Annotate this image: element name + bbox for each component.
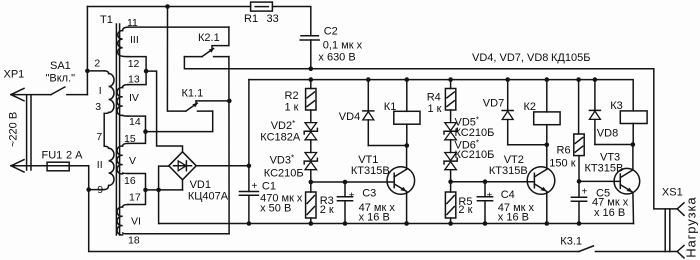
- zener VD5 KS210B: [445, 123, 457, 131]
- svg-text:FU1: FU1: [42, 150, 63, 162]
- svg-text:III: III: [130, 34, 139, 46]
- svg-text:КТ315В: КТ315В: [585, 163, 624, 175]
- wire base 3: [579, 180, 620, 182]
- svg-text:14: 14: [129, 116, 141, 128]
- node VT3 base: [577, 179, 582, 184]
- svg-text:х 630 В: х 630 В: [318, 52, 355, 64]
- svg-text:9: 9: [97, 184, 103, 196]
- svg-text:КС210Б: КС210Б: [455, 149, 495, 161]
- wire VT2 emitter to ground: [546, 192, 548, 224]
- svg-text:XS1: XS1: [662, 187, 683, 199]
- svg-text:К1.1: К1.1: [182, 88, 204, 100]
- capacitor C4 47uF 16V: [483, 179, 488, 184]
- svg-text:7: 7: [96, 131, 102, 143]
- T1 winding IV: [123, 85, 128, 88]
- svg-text:2 А: 2 А: [66, 150, 83, 162]
- svg-text:IV: IV: [129, 92, 139, 104]
- wire bridge bottom AC2: [182, 180, 184, 190]
- resistor R1 33: [251, 2, 273, 11]
- wire mains to K1.1 common: [167, 7, 186, 112]
- T1 core: [115, 24, 117, 235]
- svg-text:XP1: XP1: [4, 69, 25, 81]
- node VT1 collector: [405, 143, 410, 148]
- capacitor C1 470uF 50V: [248, 80, 250, 192]
- transistor VT2 KT315V: [527, 167, 555, 195]
- wire base 2: [451, 181, 535, 183]
- wire top mains rail: [87, 6, 250, 8]
- wire base 1: [311, 181, 394, 183]
- svg-text:К3.1: К3.1: [560, 236, 582, 248]
- svg-text:0,1 мк х: 0,1 мк х: [323, 40, 363, 52]
- bridge rectifier VD1 KTs407A: [169, 152, 196, 180]
- relay K3 coil: [620, 111, 647, 124]
- wire bridge plus to C1/+rail: [196, 165, 249, 167]
- wire 16/17 to bridge minus / ground: [146, 189, 183, 191]
- svg-text:+: +: [252, 181, 258, 192]
- svg-text:+: +: [349, 191, 355, 202]
- diode VD8: [593, 77, 598, 82]
- node top rail / K1.1 branch: [165, 4, 170, 9]
- wire SA1 to T1 pin2 / top rail: [86, 7, 88, 95]
- svg-text:18: 18: [128, 235, 140, 247]
- node C2/rail: [309, 67, 314, 72]
- diode VD7: [505, 77, 510, 82]
- svg-text:х 16 В: х 16 В: [594, 207, 625, 219]
- svg-text:С1: С1: [262, 181, 276, 193]
- svg-text:КС182А: КС182А: [260, 132, 301, 144]
- svg-text:1 к: 1 к: [428, 103, 442, 115]
- transistor VT3 KT315V: [614, 168, 640, 194]
- node 14/15: [143, 129, 148, 134]
- wire fuse to pin9 and bottom rail: [89, 166, 579, 252]
- T1 winding I (primary): [105, 71, 109, 74]
- wire +rail: [249, 80, 633, 111]
- svg-text:R4: R4: [427, 92, 441, 104]
- zener VD2 KS182A: [305, 123, 317, 131]
- resistor R2 1k: [309, 77, 314, 82]
- svg-text:R2: R2: [285, 90, 299, 102]
- transistor VT1 KT315V: [387, 167, 415, 195]
- T1 winding VI: [123, 205, 128, 208]
- node tap 12/13: [144, 69, 149, 74]
- resistor R5 2k: [450, 182, 452, 192]
- node bridge minus: [156, 188, 161, 193]
- svg-text:VD3*: VD3*: [270, 154, 295, 167]
- svg-text:VD7: VD7: [483, 97, 504, 109]
- svg-text:1 к: 1 к: [285, 102, 299, 114]
- wire VT3 emitter to ground rail end: [632, 193, 635, 224]
- wire pin14-pin15: [128, 116, 146, 143]
- svg-text:3: 3: [95, 101, 101, 113]
- T1 winding II: [109, 148, 114, 185]
- capacitor C3 47uF 16V: [343, 180, 348, 185]
- svg-text:VD4, VD7, VD8: VD4, VD7, VD8: [472, 52, 548, 64]
- wire pin16-pin17: [128, 174, 146, 205]
- wire VT1 emitter to ground: [406, 192, 408, 224]
- svg-text:КС210Б: КС210Б: [455, 127, 495, 139]
- svg-text:КД105Б: КД105Б: [551, 52, 590, 64]
- svg-text:R6: R6: [557, 145, 571, 157]
- svg-text:2 к: 2 к: [458, 204, 472, 216]
- node VT2 collector: [545, 143, 550, 148]
- resistor R4 1k: [448, 77, 453, 82]
- svg-text:Нагрузка: Нагрузка: [684, 196, 699, 257]
- wire 14/15 to K1.1 lower throw: [146, 111, 213, 132]
- svg-text:С4: С4: [501, 189, 515, 201]
- svg-text:R1: R1: [244, 13, 258, 25]
- svg-text:150 к: 150 к: [549, 158, 575, 170]
- node VT3 collector: [631, 142, 636, 147]
- svg-text:К2.1: К2.1: [198, 32, 220, 44]
- svg-text:SA1: SA1: [50, 60, 71, 72]
- svg-text:2 к: 2 к: [320, 204, 334, 216]
- svg-text:16: 16: [124, 175, 136, 187]
- svg-text:К3: К3: [610, 100, 623, 112]
- svg-text:33: 33: [267, 13, 279, 25]
- svg-text:КТ315В: КТ315В: [351, 165, 390, 177]
- svg-text:С3: С3: [362, 188, 376, 200]
- svg-text:+: +: [582, 187, 588, 198]
- wire ground rail: [159, 223, 634, 225]
- svg-text:КЦ407А: КЦ407А: [188, 191, 229, 203]
- svg-text:КТ315В: КТ315В: [489, 165, 528, 177]
- svg-text:2: 2: [94, 57, 100, 69]
- svg-text:12: 12: [128, 58, 140, 70]
- svg-text:17: 17: [129, 192, 141, 204]
- svg-text:VD1: VD1: [190, 179, 211, 191]
- zener VD6 KS210B: [445, 153, 457, 161]
- svg-text:х 50 В: х 50 В: [260, 202, 291, 214]
- wire minus to ground rail: [158, 190, 160, 224]
- svg-text:~220 В: ~220 В: [8, 112, 20, 147]
- wire tap to bridge AC1: [146, 71, 182, 152]
- svg-text:II: II: [97, 159, 103, 171]
- wire R1 to C2: [272, 7, 310, 36]
- wire load-hot rail (to XS1 top): [184, 57, 677, 209]
- node K1.1 upper throw: [227, 99, 232, 104]
- svg-text:VD4: VD4: [339, 111, 360, 123]
- svg-text:VD2*: VD2*: [271, 119, 296, 132]
- svg-text:"Вкл.": "Вкл.": [46, 73, 76, 85]
- node 16/17: [143, 188, 148, 193]
- capacitor C5 47uF 16V: [578, 181, 580, 197]
- node: mains L junction: [85, 69, 90, 74]
- wire contacts common vertical: [228, 57, 230, 234]
- svg-text:V: V: [129, 155, 136, 167]
- T1 winding V: [123, 143, 128, 146]
- svg-text:13: 13: [128, 74, 140, 86]
- svg-text:+: +: [487, 191, 493, 202]
- wire pin18 to contacts: [128, 233, 229, 235]
- resistor R6 150k: [576, 77, 581, 82]
- resistor R3 2k: [310, 182, 312, 192]
- svg-text:х 16 В: х 16 В: [498, 212, 529, 224]
- svg-text:КС210Б: КС210Б: [264, 167, 304, 179]
- T1 winding III: [123, 27, 129, 30]
- node VT1 base: [309, 180, 314, 185]
- relay K2 coil: [545, 77, 550, 82]
- svg-text:х 16 В: х 16 В: [359, 212, 390, 224]
- svg-text:VI: VI: [131, 216, 141, 228]
- wire pin11 to K2.1: [129, 26, 229, 28]
- zener VD3 KS210B: [305, 153, 317, 161]
- capacitor C2 0.1uF 630V: [301, 35, 318, 37]
- svg-text:К1: К1: [384, 101, 397, 113]
- node VT2 base: [448, 179, 453, 184]
- svg-text:I: I: [99, 85, 102, 97]
- svg-text:C2: C2: [324, 25, 338, 37]
- diode VD4: [366, 77, 371, 82]
- svg-text:T1: T1: [100, 14, 113, 26]
- svg-text:К2: К2: [524, 101, 537, 113]
- relay K1 coil: [405, 77, 410, 82]
- wire pin12-pin13 tap: [128, 57, 146, 85]
- svg-text:VD8: VD8: [597, 128, 618, 140]
